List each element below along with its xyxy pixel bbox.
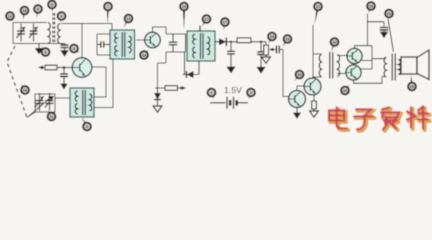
callout balloon 16 — [21, 7, 29, 20]
callout balloon 26 (supply feed) — [367, 2, 375, 13]
ground under RP — [262, 55, 271, 63]
wire cap loop top — [166, 34, 186, 52]
wire detector row 2 — [251, 41, 266, 43]
variable capacitor C1d (osc trimmer) — [45, 93, 54, 111]
wire IFT1 cap loop — [97, 34, 110, 55]
variable capacitor C1c (osc tuning) — [35, 93, 44, 111]
callout balloon 12 — [6, 12, 14, 21]
watermark 电子资料 (pseudo-glyph strokes) — [329, 106, 430, 131]
callout balloon 3 (T2) — [82, 118, 91, 131]
callout balloon 25 (speaker) — [408, 75, 416, 90]
wire antenna gang loop — [13, 23, 65, 44]
svg-text:7: 7 — [107, 4, 109, 9]
transistor V2 (IF amp) — [145, 32, 161, 48]
junction dot det1 — [230, 41, 232, 43]
wire V4 emitter — [313, 95, 315, 101]
resistor R5 (AGC) — [165, 86, 182, 91]
wire detector row — [226, 41, 237, 43]
gang arrow through osc section — [29, 98, 51, 117]
wire osc gang loop — [35, 94, 55, 112]
callout balloon 22 (T3) — [331, 38, 339, 51]
diode D2 (detector, under B2) — [183, 52, 200, 78]
wire AGC line — [155, 87, 165, 89]
B2 core — [201, 33, 204, 59]
wire supply feed vertical — [367, 14, 369, 46]
ground under V3 emitter — [293, 108, 301, 119]
callout balloon 7 (top rail) — [104, 3, 112, 24]
callout balloon 14 (under V2) — [140, 50, 148, 59]
B1 core — [122, 32, 125, 57]
potentiometer RP (volume) — [264, 45, 269, 55]
ground under C8 — [256, 66, 265, 73]
T4 primary winding — [384, 57, 386, 77]
ground under C7 — [226, 66, 235, 73]
wire IFT1 bottom to T2 — [94, 59, 113, 108]
wire T3 to V6 base — [337, 73, 346, 75]
junction dot V1 base — [63, 66, 66, 69]
T4 secondary winding — [398, 60, 400, 75]
svg-text:20: 20 — [297, 72, 301, 77]
wire T4 pointer — [388, 19, 394, 52]
wire main vertical feed — [312, 25, 314, 78]
svg-text:27: 27 — [204, 16, 208, 21]
T2 core — [83, 90, 85, 115]
T2 secondary winding — [90, 94, 92, 111]
B1 primary winding lower — [115, 46, 117, 57]
RP wiper arrow — [272, 49, 275, 51]
capacitor C3 (V1 base to gnd) — [60, 68, 68, 83]
callout balloon 9 (V1 collector) — [70, 45, 79, 53]
wire V6 emitter — [361, 68, 373, 70]
arrowhead on V1 base lead — [38, 66, 43, 70]
wire V3 collector to V4 base — [297, 86, 305, 91]
variable capacitor C1a (antenna tuning) — [17, 24, 26, 42]
junction dot det2 — [260, 41, 262, 43]
capacitor C8 (det filter 2) — [257, 42, 265, 67]
capacitor C5 (interstage) — [169, 34, 177, 52]
callout balloon 11 (osc gang) — [48, 112, 56, 120]
callout balloon 18 (pot top) — [268, 33, 276, 44]
callout balloon 1 (battery -) — [208, 89, 216, 99]
callout balloon 20 — [295, 71, 304, 81]
T3 core — [330, 52, 333, 79]
T3 secondary winding — [337, 55, 339, 77]
transistor V6 (output) — [346, 65, 361, 80]
capacitor C12 (supply bypass) — [380, 27, 388, 31]
diode D1 (detector) — [215, 38, 226, 47]
ground under C3 — [60, 82, 68, 90]
wire C9 to V3b base — [283, 50, 289, 97]
wire T3 primary bottom — [313, 76, 322, 78]
callout balloon 6 — [42, 47, 50, 56]
wire B1 to V2 base — [136, 39, 144, 41]
callout balloon 4 — [58, 12, 66, 22]
wire to pot — [265, 42, 267, 45]
wire V1 base lead arrow — [41, 67, 46, 69]
inductor T1 primary winding — [48, 23, 50, 44]
callout balloon 19 (C9) — [283, 35, 292, 46]
svg-text:17: 17 — [223, 19, 227, 24]
wire cap loop bottom — [158, 52, 186, 88]
speaker BL — [401, 50, 429, 80]
B1 secondary winding — [129, 36, 131, 53]
ground under C2 — [60, 50, 68, 57]
arrowhead AGC — [181, 86, 186, 90]
ground under R9 — [310, 109, 319, 117]
wire V5 collector loop — [355, 46, 386, 69]
B2 primary winding lower — [193, 47, 195, 58]
T3 primary winding — [319, 55, 321, 77]
wire V5 emitter — [362, 60, 373, 62]
callout balloon 27 (B2 top) — [202, 15, 210, 26]
callout balloon 24 (T4) — [385, 10, 393, 19]
transistor V3 (preamp) — [289, 91, 306, 108]
ground under D3 — [153, 100, 162, 112]
callout balloon 15 (B2) — [180, 3, 188, 29]
wire T3 to V5 base — [337, 55, 347, 57]
variable capacitor C1b (antenna trimmer) — [29, 24, 38, 42]
diode D3 (AGC to gnd) — [154, 88, 161, 100]
T1 core — [53, 13, 55, 44]
callout balloon 23 (V6 emitter) — [341, 85, 349, 95]
T2 primary winding upper — [75, 91, 77, 102]
IF transformer B2 box — [187, 31, 215, 61]
transistor V5 (output) — [347, 48, 362, 63]
resistor R6 — [237, 38, 251, 43]
wire V1 collector — [81, 24, 83, 58]
wire gang link to gang2 — [27, 112, 35, 118]
B1 primary winding upper — [115, 33, 117, 43]
resistor R1 (V1 base) — [45, 65, 73, 70]
dashed gang link line — [7, 46, 27, 118]
transistor V4 (driver) — [304, 78, 321, 95]
B2 secondary winding — [208, 37, 210, 55]
battery GB 1.5V — [210, 97, 248, 109]
inductor T1 secondary winding — [58, 24, 60, 44]
wire V6 collector loop — [354, 77, 387, 84]
T2 primary winding lower — [75, 104, 77, 115]
wire V2 collector loop — [153, 27, 167, 34]
capacitor C9 (coupling, electrolytic) — [275, 46, 284, 54]
ground under C12 — [380, 31, 388, 38]
svg-text:10: 10 — [23, 87, 27, 92]
capacitor C7 (det filter 1) — [227, 42, 235, 66]
wire top rail — [61, 24, 112, 31]
svg-text:1.5V: 1.5V — [224, 85, 242, 95]
callout balloon 5 (on T1 core) — [48, 1, 56, 12]
callout balloon 21 (feed wire) — [314, 3, 322, 24]
callout balloon 13 (B1) — [124, 15, 133, 28]
callout balloon 8 — [34, 5, 42, 17]
resistor R9 (V4 emitter) — [312, 101, 317, 109]
wire supply branch — [368, 22, 385, 26]
B2 primary winding upper — [193, 34, 195, 45]
capacitor C2 to ground — [61, 44, 69, 50]
transistor V1 (converter) — [72, 58, 92, 78]
oscillator transformer T2 box — [70, 88, 94, 117]
wire V1 emitter to T2 — [92, 67, 107, 97]
stub above B2 — [199, 26, 201, 32]
IF transformer B1 box — [110, 30, 135, 59]
wire T3 primary top — [313, 53, 322, 55]
T4 core — [392, 54, 395, 81]
wire T4 secondary to speaker — [398, 60, 401, 75]
callout balloon 2 (battery +) — [247, 89, 255, 99]
callout balloon 17 — [221, 18, 229, 30]
wire gang2 to T2 — [55, 97, 70, 99]
capacitor C4 (IFT1 tune) — [97, 41, 110, 47]
ground under antenna gang — [35, 44, 43, 55]
callout balloon 10 (gang link) — [21, 84, 29, 94]
